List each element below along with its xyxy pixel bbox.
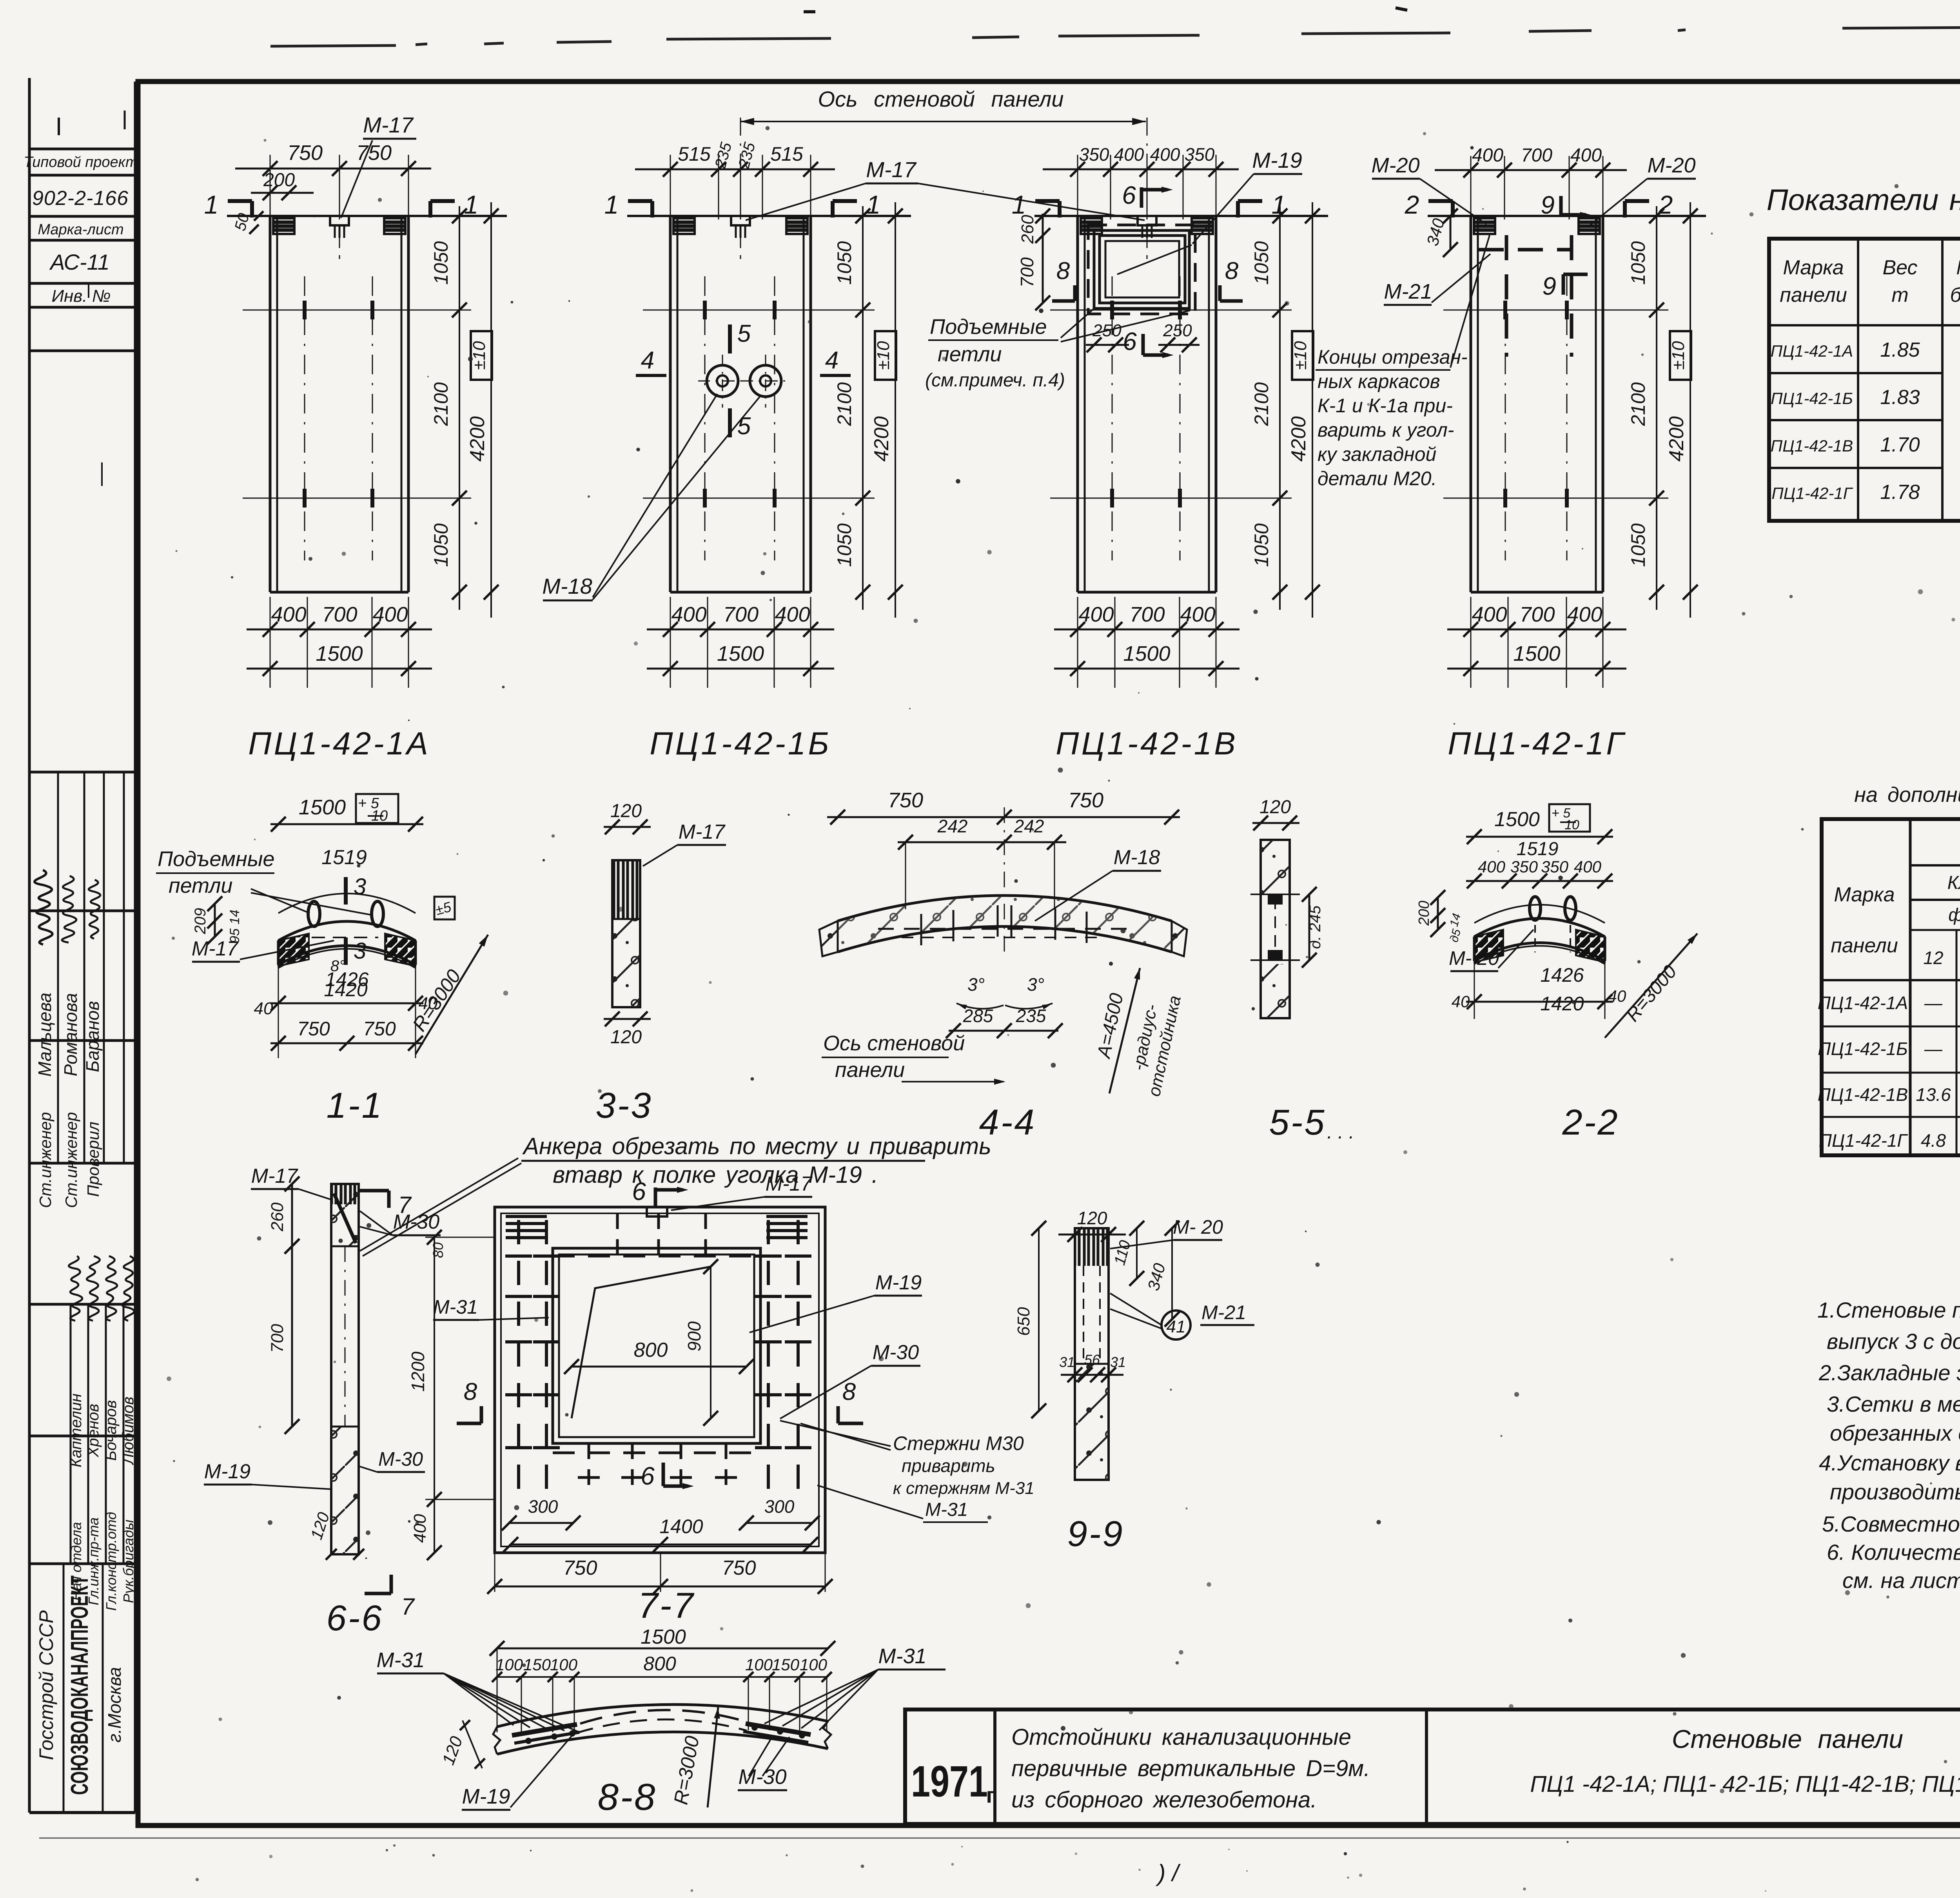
svg-text:Ст.инженер: Ст.инженер: [62, 1112, 80, 1208]
svg-text:120: 120: [439, 1734, 466, 1767]
svg-text:3°: 3°: [967, 974, 985, 995]
svg-text:300: 300: [528, 1496, 558, 1517]
svg-text:1050: 1050: [1250, 523, 1272, 567]
section 2-2 radius: [1605, 934, 1697, 1038]
panel ПЦ1-42-1А mid tick crosses: [243, 310, 471, 311]
svg-text:ных каркасов: ных каркасов: [1318, 370, 1440, 392]
panel A top dims 750+750: [270, 155, 271, 219]
svg-text:Показатели на одну панель: Показатели на одну панель: [1767, 183, 1960, 217]
svg-text:А=4500: А=4500: [1093, 991, 1127, 1060]
svg-text:к стержням М-31: к стержням М-31: [893, 1479, 1034, 1498]
svg-text:1500: 1500: [316, 642, 363, 665]
panel V opening with dashed contour: [1094, 230, 1189, 308]
svg-text:) /: ) /: [1155, 1860, 1181, 1886]
svg-text:120: 120: [610, 801, 642, 821]
panel ПЦ1-42-1Б right dimension chain: [862, 206, 864, 610]
panel ПЦ1-42-1Г mid tick crosses: [1443, 310, 1668, 311]
svg-text:5.Совместно с данным см.: 5.Совместно с данным см. лист АС-5.: [1822, 1512, 1960, 1536]
svg-text:7: 7: [401, 1593, 415, 1620]
svg-text:петли: петли: [938, 343, 1002, 366]
svg-text:1050: 1050: [833, 523, 855, 567]
svg-text:340: 340: [1144, 1261, 1169, 1293]
panel B top dims 515 235 235 515: [670, 155, 671, 219]
svg-text:Любимов: Любимов: [120, 1397, 137, 1466]
svg-text:Инв. №: Инв. №: [52, 286, 111, 306]
svg-text:петли: петли: [169, 874, 232, 897]
svg-text:1500: 1500: [1513, 642, 1560, 665]
svg-text:на дополнительные закладные: на дополнительные закладные элементы на …: [1854, 783, 1960, 807]
table pokazateli grid: [1769, 239, 1960, 521]
svg-text:М-17: М-17: [363, 112, 414, 137]
svg-text:12: 12: [1923, 948, 1943, 968]
svg-text:40: 40: [1452, 992, 1470, 1011]
section 1-1 lower dims: [278, 949, 416, 968]
section 1-1 slab: [278, 921, 416, 941]
svg-text:ПЦ1-42-1Г: ПЦ1-42-1Г: [1819, 1130, 1908, 1151]
section 4-4 top dims: [827, 816, 1180, 818]
svg-text:М-17: М-17: [679, 821, 726, 843]
svg-text:М-19: М-19: [204, 1460, 250, 1483]
svg-text:235: 235: [1016, 1006, 1046, 1026]
svg-text:1: 1: [604, 190, 619, 219]
svg-text:Хренов: Хренов: [85, 1404, 102, 1457]
svg-text:4200: 4200: [870, 416, 893, 462]
section 2-2 top dims: [1466, 836, 1613, 838]
svg-text:6-6: 6-6: [327, 1598, 383, 1638]
stamp header boxes: [29, 148, 135, 150]
svg-text:6: 6: [1123, 327, 1137, 355]
panel A top center anchor M-17: [330, 216, 349, 225]
svg-text:700: 700: [1129, 603, 1165, 626]
svg-text:1.83: 1.83: [1880, 386, 1920, 409]
svg-text:2100: 2100: [1250, 382, 1272, 426]
svg-text:Анкера обрезать по месту и при: Анкера обрезать по месту и приварить: [522, 1133, 991, 1159]
section 7-7 dashed top zone: [553, 1255, 760, 1258]
signature table lower: [29, 1303, 135, 1306]
svg-text:г: г: [986, 1783, 995, 1807]
svg-text:К-1 и К-1а при-: К-1 и К-1а при-: [1318, 395, 1453, 417]
svg-text:приварить: приварить: [902, 1456, 995, 1476]
panel ПЦ1-42-1Г corner anchors: [1474, 218, 1495, 234]
svg-text:400: 400: [410, 1514, 430, 1543]
svg-text:обрезанных стержней приварить: обрезанных стержней приварить к закладны…: [1830, 1421, 1960, 1445]
svg-text:7-7: 7-7: [638, 1586, 695, 1626]
section 7-7 dashed reinforcement left zone: [517, 1220, 520, 1501]
svg-text:8: 8: [1225, 257, 1239, 285]
svg-text:М-17: М-17: [192, 937, 239, 960]
section mark 5 top and bottom: [728, 324, 732, 353]
section 2-2 lifting loops: [1530, 897, 1541, 920]
section 6-6 dim 260: [291, 1184, 293, 1246]
panel ПЦ1-42-1В corner anchors: [1081, 218, 1102, 234]
section 9-9 dims 110 340 650: [1136, 1228, 1138, 1278]
svg-text:Ст.инженер: Ст.инженер: [36, 1112, 54, 1208]
svg-text:350: 350: [1185, 144, 1215, 165]
svg-text:3-3: 3-3: [596, 1086, 653, 1126]
svg-text:400: 400: [1150, 144, 1180, 165]
svg-text:R=3000: R=3000: [1622, 961, 1681, 1026]
svg-text:М- 20: М- 20: [1173, 1216, 1223, 1238]
svg-text:д5: д5: [1448, 928, 1464, 944]
section 2-2 slab: [1474, 919, 1605, 937]
svg-text:из сборного железобетона.: из сборного железобетона.: [1011, 1787, 1317, 1813]
svg-text:М-17: М-17: [766, 1173, 813, 1195]
svg-text:ПЦ1-42-1В: ПЦ1-42-1В: [1771, 437, 1853, 455]
svg-text:М-20: М-20: [1371, 154, 1419, 177]
svg-text:200: 200: [263, 170, 295, 190]
svg-text:М-21: М-21: [1201, 1302, 1246, 1323]
svg-text:Подъемные: Подъемные: [158, 847, 274, 871]
section 8-8 anchor plates: [512, 1724, 577, 1735]
svg-text:100: 100: [550, 1655, 578, 1674]
section 1-1 arc dim 1519: [278, 894, 416, 913]
svg-text:1.78: 1.78: [1880, 481, 1920, 504]
svg-text:350: 350: [1079, 144, 1109, 165]
section 1-1 mark 3-3 cut symbols: [344, 877, 348, 905]
svg-text:R=3000: R=3000: [408, 966, 465, 1035]
svg-text:1500: 1500: [717, 642, 764, 665]
svg-text:209: 209: [192, 908, 209, 935]
section 1-1 lifting loops: [308, 901, 320, 926]
svg-text:АС-11: АС-11: [49, 250, 109, 274]
svg-text:1050: 1050: [430, 241, 452, 285]
panel ПЦ1-42-1А right dimension chain: [459, 206, 460, 610]
svg-text:2: 2: [1405, 190, 1419, 219]
section 2-2 lower dims: [1474, 946, 1605, 964]
svg-text:варить к угол-: варить к угол-: [1318, 419, 1454, 441]
section 7-7 dashed reinforcement right zone: [767, 1220, 770, 1501]
panel ПЦ1-42-1А outline: [227, 215, 507, 217]
left stamp column outer lines: [28, 78, 31, 1813]
svg-text:400: 400: [1114, 144, 1144, 165]
panel ПЦ1-42-1Б bottom dimensions: [670, 597, 671, 688]
svg-text:Подъемные: Подъемные: [930, 315, 1047, 339]
svg-text:1050: 1050: [1250, 241, 1272, 285]
svg-text:Ось стеновой панели: Ось стеновой панели: [818, 87, 1064, 111]
svg-text:2.Закладные элементы М-17 ÷: 2.Закладные элементы М-17 ÷ М-21 см. лис…: [1818, 1360, 1960, 1385]
svg-text:2100: 2100: [833, 382, 855, 426]
svg-text:ПЦ1-42-1Г: ПЦ1-42-1Г: [1448, 726, 1626, 761]
panel ПЦ1-42-1В outline: [1034, 215, 1328, 217]
svg-text:4200: 4200: [466, 416, 489, 462]
svg-text:1.70: 1.70: [1880, 433, 1920, 456]
section 7-7 inner opening: [553, 1248, 760, 1443]
svg-text:400: 400: [1478, 857, 1506, 876]
svg-text:120: 120: [1077, 1208, 1107, 1228]
svg-text:100: 100: [495, 1655, 523, 1674]
svg-text:2-2: 2-2: [1562, 1102, 1619, 1142]
section 5-5 strip: [1252, 822, 1299, 824]
svg-text:М-30: М-30: [393, 1211, 440, 1233]
svg-text:400: 400: [372, 603, 408, 626]
svg-text:ПЦ1-42-1Б: ПЦ1-42-1Б: [1818, 1039, 1908, 1059]
svg-text:750: 750: [297, 1018, 330, 1040]
panel ПЦ1-42-1Б outline: [627, 215, 911, 217]
section 9-9 strip: [1058, 1234, 1126, 1236]
panel ПЦ1-42-1В right dimension chain: [1279, 206, 1281, 610]
svg-text:Проверил: Проверил: [84, 1122, 102, 1197]
svg-text:1: 1: [464, 190, 479, 219]
svg-text:650: 650: [1014, 1307, 1033, 1336]
svg-text:1200: 1200: [408, 1351, 428, 1392]
svg-text:400: 400: [1570, 145, 1602, 166]
svg-text:110: 110: [1111, 1238, 1134, 1267]
panel V top dims 350 400 400 350: [1077, 155, 1078, 219]
svg-text:1500: 1500: [1494, 808, 1540, 831]
svg-text:3: 3: [354, 938, 366, 964]
svg-text:1500: 1500: [299, 796, 346, 819]
svg-text:Мальцева: Мальцева: [34, 993, 55, 1077]
svg-text:М-30: М-30: [738, 1765, 786, 1789]
svg-text:700: 700: [322, 603, 357, 626]
svg-text:±10: ±10: [1291, 341, 1310, 370]
svg-text:242: 242: [937, 816, 968, 836]
svg-text:235: 235: [711, 140, 735, 171]
panel V top center anchor M-17: [1138, 216, 1156, 225]
svg-text:ф -мм: ф -мм: [1948, 905, 1960, 925]
svg-text:80: 80: [430, 1242, 446, 1258]
section 8-8 radius: [708, 1707, 718, 1807]
svg-text:400: 400: [775, 603, 810, 626]
svg-text:400: 400: [1574, 857, 1602, 876]
svg-text:120: 120: [307, 1510, 333, 1542]
panel B lifting loop circles: [707, 365, 738, 397]
svg-text:1.Стеновые панели приняты: 1.Стеновые панели приняты марки ПЦ1 -42-…: [1817, 1298, 1960, 1322]
svg-text:10: 10: [1564, 818, 1579, 832]
scan artifact dashes top edge: [270, 45, 396, 46]
svg-text:4.8: 4.8: [1921, 1130, 1946, 1151]
svg-text:40: 40: [254, 999, 273, 1018]
svg-text:М-17: М-17: [866, 157, 916, 182]
svg-text:втавр к полке уголка М-19: втавр к полке уголка М-19 .: [553, 1162, 878, 1188]
svg-text:350: 350: [1510, 857, 1538, 876]
svg-text:31: 31: [1110, 1354, 1126, 1370]
svg-text:13.6: 13.6: [1916, 1084, 1951, 1105]
svg-text:750: 750: [356, 141, 392, 165]
svg-text:6: 6: [1122, 181, 1136, 209]
signature table upper: [29, 771, 135, 774]
organization box: [29, 1811, 135, 1814]
section 6-6 dim 700: [291, 1246, 293, 1427]
section 7-7 dashed bottom zone: [553, 1452, 760, 1454]
svg-text:9-9: 9-9: [1067, 1514, 1124, 1554]
section 2-2 left dims: [1437, 897, 1439, 930]
svg-text:4200: 4200: [1287, 416, 1310, 462]
svg-text:т: т: [1891, 284, 1908, 306]
svg-text:14: 14: [1448, 912, 1464, 928]
svg-text:400: 400: [1078, 603, 1114, 626]
svg-text:350: 350: [1541, 857, 1569, 876]
svg-text:Марка: Марка: [1956, 256, 1960, 279]
section 6-6 strip: [331, 1184, 359, 1554]
svg-text:М-21: М-21: [1384, 280, 1432, 303]
svg-text:Романова: Романова: [60, 993, 81, 1076]
svg-text:9: 9: [1541, 191, 1555, 219]
svg-text:400: 400: [271, 603, 306, 626]
svg-text:100: 100: [745, 1655, 773, 1674]
svg-text:±10: ±10: [1669, 341, 1688, 370]
svg-text:R=3000: R=3000: [670, 1734, 703, 1806]
table vyborka grid: [1822, 819, 1960, 1155]
svg-text:2100: 2100: [430, 382, 452, 426]
section 8-8 dashed rebar arcs: [580, 1710, 745, 1724]
svg-text:700: 700: [268, 1324, 287, 1353]
section 7-7 diagonal opening lines: [572, 1267, 711, 1418]
svg-text:±10: ±10: [470, 341, 489, 370]
svg-text:14: 14: [227, 910, 242, 925]
svg-text:260: 260: [1018, 215, 1037, 244]
svg-text:Стеновые панели: Стеновые панели: [1672, 1724, 1903, 1753]
section 8-8 top dim 1500: [497, 1648, 828, 1650]
svg-text:4.Установку верхних подъемн: 4.Установку верхних подъемных петель в п…: [1819, 1450, 1960, 1475]
panel ПЦ1-42-1А bottom dimensions: [270, 597, 271, 688]
svg-text:56: 56: [1084, 1352, 1100, 1368]
svg-text:производить по данному чер: производить по данному чертежу.: [1830, 1479, 1960, 1504]
svg-text:д. 245: д. 245: [1307, 905, 1324, 949]
svg-text:М-20: М-20: [1647, 154, 1695, 177]
svg-text:100: 100: [800, 1655, 828, 1674]
svg-text:8: 8: [842, 1378, 856, 1405]
dim 340 panel G: [1450, 216, 1452, 250]
section 7-7 outer square: [495, 1207, 825, 1553]
svg-text:700: 700: [1521, 145, 1552, 166]
svg-text:750: 750: [1068, 789, 1103, 812]
svg-text:8-8: 8-8: [598, 1776, 657, 1818]
svg-text:41: 41: [1167, 1317, 1186, 1336]
svg-text:—: —: [1924, 1039, 1943, 1059]
svg-text:Марка-лист: Марка-лист: [38, 221, 123, 238]
section 8-8 second dims: [497, 1648, 498, 1732]
svg-text:М-30: М-30: [378, 1448, 423, 1470]
svg-text:300: 300: [764, 1496, 795, 1517]
svg-text:3.Сетки в местах отверсти: 3.Сетки в местах отверстий вырезать по м…: [1827, 1392, 1960, 1416]
svg-text:6: 6: [632, 1177, 646, 1206]
signatures lower: [69, 1256, 82, 1321]
svg-text:700: 700: [723, 603, 759, 626]
svg-text:800: 800: [634, 1339, 668, 1361]
svg-text:СОЮЗВОДОКАНАЛПРОЕКТ: СОЮЗВОДОКАНАЛПРОЕКТ: [66, 1575, 93, 1795]
svg-text:М-18: М-18: [542, 574, 592, 598]
svg-text:8: 8: [464, 1378, 477, 1405]
svg-text:700: 700: [1519, 603, 1555, 626]
section 9-9 dims 31 56 31: [1061, 1374, 1123, 1376]
svg-text:1420: 1420: [1540, 993, 1584, 1015]
svg-text:1050: 1050: [1627, 523, 1649, 567]
svg-text:первичные вертикальные D=9м.: первичные вертикальные D=9м.: [1011, 1756, 1370, 1781]
svg-text:Госстрой СССР: Госстрой СССР: [35, 1610, 57, 1760]
svg-text:М-31: М-31: [925, 1499, 968, 1520]
svg-text:400: 400: [1567, 603, 1602, 626]
svg-text:Баранов: Баранов: [82, 1001, 103, 1072]
svg-text:902-2-166: 902-2-166: [32, 187, 129, 210]
section 1-1 left small dims: [214, 904, 216, 937]
svg-text:1500: 1500: [1123, 642, 1170, 665]
svg-text:260: 260: [268, 1202, 287, 1232]
section 7-7 dims 300 300 1400 750: [509, 1522, 573, 1524]
svg-text:Класса А-II: Класса А-II: [1947, 872, 1960, 893]
left edge artifacts: [58, 118, 60, 135]
svg-text:9: 9: [1542, 272, 1556, 300]
svg-text:ПЦ1-42-1А: ПЦ1-42-1А: [1818, 993, 1908, 1013]
section 7-7 dims 800 900: [572, 1366, 746, 1368]
svg-text:Стержни М30: Стержни М30: [893, 1432, 1024, 1454]
svg-text:1426: 1426: [1540, 964, 1584, 986]
svg-text:М-19: М-19: [1252, 148, 1302, 172]
svg-text:ПЦ1-42-1В: ПЦ1-42-1В: [1818, 1084, 1908, 1105]
svg-text:панели: панели: [1831, 934, 1898, 957]
opening dims 260 700: [1042, 214, 1044, 236]
section 7-7 top corner anchor plates: [506, 1215, 547, 1218]
svg-text:1: 1: [1272, 190, 1286, 219]
svg-text:ПЦ1-42-1Б: ПЦ1-42-1Б: [1771, 389, 1853, 408]
svg-text:4: 4: [825, 347, 838, 374]
svg-text:285: 285: [963, 1006, 993, 1026]
svg-text:3: 3: [354, 874, 366, 899]
svg-text:ПЦ1-42-1Г: ПЦ1-42-1Г: [1771, 484, 1853, 502]
svg-text:(см.примеч. п.4): (см.примеч. п.4): [925, 370, 1065, 391]
svg-text:М-31: М-31: [878, 1644, 926, 1668]
svg-text:1.85: 1.85: [1880, 339, 1920, 361]
svg-text:1519: 1519: [1517, 839, 1559, 859]
svg-text:242: 242: [1014, 816, 1044, 836]
panel ПЦ1-42-1А corner anchors: [273, 218, 294, 234]
title block frame: [905, 1709, 1960, 1824]
svg-text:515: 515: [770, 143, 803, 165]
svg-text:—: —: [1924, 993, 1943, 1013]
section 6-6 bottom mark 7: [390, 1575, 393, 1593]
svg-text:1050: 1050: [833, 241, 855, 285]
panel B top center anchor M-17: [731, 216, 750, 225]
svg-text:31: 31: [1059, 1354, 1075, 1370]
svg-text:ПЦ1 -42-1А; ПЦ1- 42-1Б; ПЦ1-42: ПЦ1 -42-1А; ПЦ1- 42-1Б; ПЦ1-42-1В; ПЦ1-4…: [1530, 1771, 1960, 1797]
svg-text:1050: 1050: [1627, 241, 1649, 285]
panel ПЦ1-42-1Г outline: [1428, 215, 1706, 217]
section 1-1 top dims: [270, 823, 423, 825]
svg-text:1500: 1500: [641, 1626, 686, 1648]
svg-text:50: 50: [231, 211, 252, 232]
section 3-3 strip: [604, 826, 651, 828]
svg-text:4200: 4200: [1665, 416, 1688, 462]
svg-text:750: 750: [287, 141, 323, 165]
svg-text:8: 8: [1056, 257, 1070, 285]
panel ПЦ1-42-1Б mid tick crosses: [643, 310, 875, 311]
svg-text:Вес: Вес: [1882, 256, 1917, 279]
svg-text:М-31: М-31: [433, 1296, 478, 1318]
svg-text:ПЦ1-42-1В: ПЦ1-42-1В: [1056, 726, 1238, 761]
svg-text:340: 340: [1423, 216, 1448, 248]
svg-text:400: 400: [671, 603, 706, 626]
svg-text:1: 1: [1012, 190, 1026, 219]
svg-text:М-18: М-18: [1114, 846, 1160, 869]
svg-text:5-5: 5-5: [1269, 1102, 1326, 1142]
svg-text:1-1: 1-1: [327, 1086, 383, 1126]
svg-text:2100: 2100: [1627, 382, 1649, 426]
svg-text:М-31: М-31: [376, 1648, 425, 1672]
signatures upper: [34, 870, 53, 944]
svg-text:±5: ±5: [434, 899, 453, 918]
svg-text:3°: 3°: [1027, 974, 1044, 995]
svg-text:выпуск 3 с добавлением: выпуск 3 с добавлением закладных элемент…: [1827, 1329, 1960, 1354]
section 8-8 slab band: [497, 1704, 828, 1727]
svg-text:150: 150: [772, 1655, 800, 1674]
svg-text:1: 1: [866, 190, 881, 219]
svg-text:ПЦ1-42-1Б: ПЦ1-42-1Б: [650, 726, 831, 761]
svg-text:1: 1: [204, 190, 219, 219]
section 6-6 top mark 7: [359, 1189, 389, 1193]
svg-text:1400: 1400: [659, 1515, 703, 1537]
panel G top dims 400 700 400: [1470, 156, 1472, 219]
svg-text:5: 5: [737, 320, 751, 347]
